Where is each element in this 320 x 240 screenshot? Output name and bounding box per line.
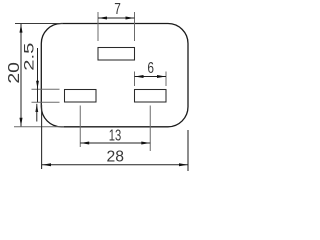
dim 28: extension lines [41,105,43,169]
dim 28: left arrow [42,163,51,166]
top edge extension line (left, for 20 dim) [15,23,63,25]
left pin slot [65,90,97,103]
svg-text:28: 28 [106,149,124,166]
dim 20: dimension line [20,24,22,127]
dim 2.5: lower arrow (points up to pin bottom) [35,104,38,112]
svg-text:7: 7 [114,1,121,18]
dim 7: left arrow [98,17,107,20]
dim 6: dimension line [135,76,167,78]
dim 7: extension lines [97,12,99,41]
dim 6: left arrow [135,75,144,78]
dim 2.5: upper arrow (points down to pin top) [36,81,39,89]
dim 13: extension lines (pin centers) [79,106,81,148]
dim 28: right arrow [179,163,188,166]
dim 13: right arrow [141,142,150,145]
dim 28: dimension line [42,164,188,166]
earth slot (top center) [98,48,135,61]
dim 6: right arrow [157,75,166,78]
right pin slot [135,90,167,103]
connector body outline [41,24,188,127]
dim 7: right arrow [126,17,135,20]
dim 13: dimension line [80,142,150,144]
dim 7: dimension line [98,17,135,19]
dim 2.5: extension lines [32,88,60,90]
svg-text:6: 6 [147,60,154,77]
dim 20: bottom arrow [20,118,23,127]
bottom edge extension line (left, for 20 dim) [14,126,64,128]
dim 6: extension lines [134,72,136,87]
dim 13: left arrow [81,142,90,145]
dim 20: top arrow [20,24,23,33]
dim 2.5: dimension line [37,48,39,102]
svg-text:13: 13 [109,128,122,145]
dim 2.5: lower arrow tail [36,104,38,122]
svg-text:2.5: 2.5 [20,42,36,70]
